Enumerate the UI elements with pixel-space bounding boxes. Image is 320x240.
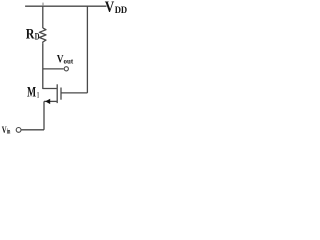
resistor RD: [39, 28, 46, 43]
svg-text:R: R: [26, 27, 35, 43]
node vin terminal circle: [16, 127, 21, 132]
svg-text:1: 1: [37, 90, 39, 100]
node vout terminal circle: [64, 67, 68, 71]
transistor M1 gate bar: [60, 88, 62, 100]
svg-text:in: in: [7, 127, 11, 135]
wire gate to VDD horizontal: [62, 92, 88, 94]
wire bottom to vin: [21, 129, 44, 131]
wire source down: [43, 101, 45, 129]
transistor M1 source arrow: [45, 99, 50, 104]
wire vout stub: [43, 68, 64, 70]
wire gate to VDD vertical: [86, 6, 88, 93]
transistor M1 channel bar: [56, 84, 58, 103]
wire resistor bottom to drain corner: [43, 43, 57, 88]
svg-text:V: V: [105, 0, 115, 16]
svg-text:D: D: [35, 32, 40, 42]
svg-text:DD: DD: [115, 6, 128, 16]
svg-text:out: out: [64, 56, 74, 65]
wire source horizontal: [44, 100, 57, 102]
wire VDD rail: [25, 5, 106, 7]
svg-text:M: M: [27, 85, 36, 101]
wire rail to resistor top: [42, 6, 44, 28]
wire stub above rail: [42, 3, 44, 7]
